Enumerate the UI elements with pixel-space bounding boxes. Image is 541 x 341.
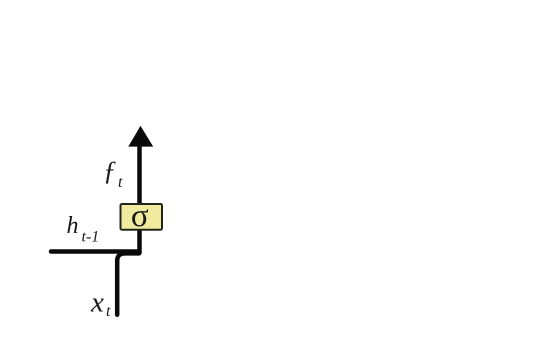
svg-text:t: t [106,303,111,320]
svg-text:σ: σ [131,198,149,234]
svg-text:x: x [90,287,104,319]
svg-text:t-1: t-1 [82,229,100,246]
svg-text:t: t [118,174,123,191]
svg-text:h: h [67,213,79,239]
svg-text:ƒ: ƒ [103,156,117,186]
